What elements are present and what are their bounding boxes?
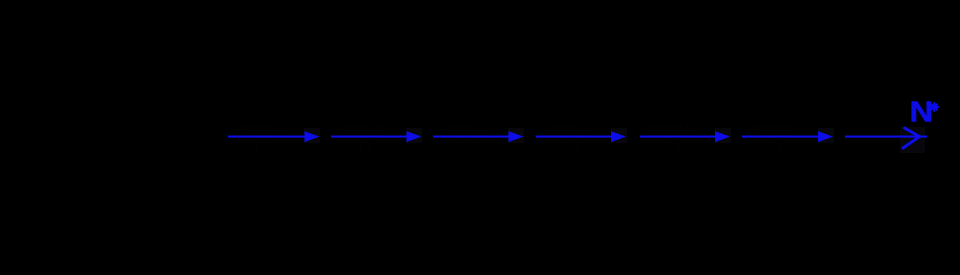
faint box behind head 5 xyxy=(715,128,731,143)
faint box behind head 3 xyxy=(508,128,524,143)
svg-text:reagent E: reagent E xyxy=(648,123,692,134)
faint box behind head 4 xyxy=(611,128,627,143)
faint box behind chevron head xyxy=(900,127,925,153)
svg-text:cond. 3: cond. 3 xyxy=(443,142,476,153)
faint box behind head 2 xyxy=(406,128,422,143)
arrow 3 xyxy=(433,131,524,142)
arrow 2 xyxy=(331,131,422,142)
arrow 4 xyxy=(536,131,626,142)
arrow 6 xyxy=(742,131,833,142)
faint box behind head 6 xyxy=(818,128,834,143)
svg-text:reagent A: reagent A xyxy=(238,123,281,134)
arrow 1 (blue reaction arrow, filled head) xyxy=(228,131,320,142)
arrow 5 xyxy=(640,131,730,142)
svg-text:cond. 1: cond. 1 xyxy=(236,142,269,153)
svg-text:cond. 4: cond. 4 xyxy=(546,142,579,153)
faint box behind head 1 xyxy=(304,128,320,143)
svg-text:reagent B: reagent B xyxy=(340,123,384,134)
svg-text:cond. 5: cond. 5 xyxy=(648,142,681,153)
svg-text:cond. 6: cond. 6 xyxy=(750,142,783,153)
arrow 7 (open chevron head, line overshoots tip) xyxy=(845,128,927,148)
svg-text:cond. 2: cond. 2 xyxy=(340,142,373,153)
svg-text:reagent F: reagent F xyxy=(750,123,793,134)
svg-text:N: N xyxy=(910,95,933,128)
label N* (blue nitrogen with superscript star) xyxy=(910,95,933,128)
faint reagent text above/below arrows (near-black) xyxy=(236,123,793,153)
svg-text:reagent C: reagent C xyxy=(443,123,487,134)
superscript star of N label xyxy=(930,103,938,111)
svg-text:reagent D: reagent D xyxy=(546,123,590,134)
